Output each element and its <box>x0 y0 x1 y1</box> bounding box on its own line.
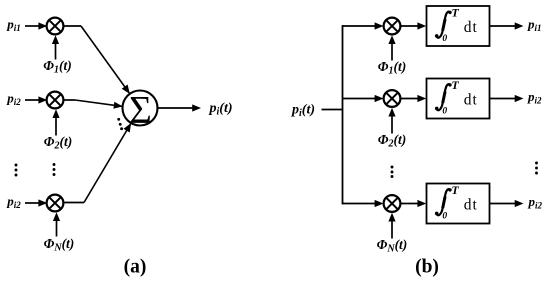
svg-text:0: 0 <box>442 107 447 117</box>
svg-text:pi(t): pi(t) <box>209 101 233 118</box>
svg-text:(a): (a) <box>124 257 147 278</box>
svg-text:0: 0 <box>442 34 447 44</box>
svg-text:Σ: Σ <box>129 89 152 132</box>
svg-text:dt: dt <box>464 19 478 36</box>
svg-text:dt: dt <box>464 196 478 213</box>
svg-text:dt: dt <box>464 91 478 108</box>
svg-text:T: T <box>451 5 459 19</box>
svg-text:T: T <box>451 183 459 197</box>
svg-text:(b): (b) <box>415 257 439 278</box>
svg-text:T: T <box>451 78 459 92</box>
svg-text:0: 0 <box>442 212 447 222</box>
svg-text:pi(t): pi(t) <box>291 103 315 120</box>
